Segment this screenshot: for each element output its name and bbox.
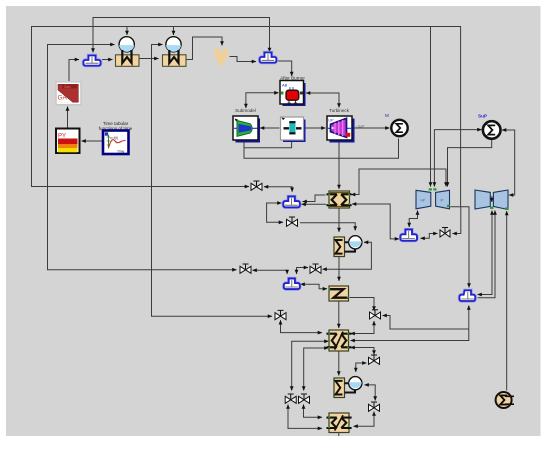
GA gain block xyxy=(56,82,81,105)
wire sum SuP right to ST2 xyxy=(502,130,515,195)
svg-text:Saw: Saw xyxy=(64,85,71,89)
valve6 xyxy=(240,264,251,273)
svg-text:UP: UP xyxy=(328,119,334,123)
wire valve5 to flange4 right xyxy=(421,234,438,239)
wire valve9 to bottom box left-bottom xyxy=(288,405,322,429)
evaporator2 with drum xyxy=(334,377,362,398)
svg-text:GA: GA xyxy=(58,95,68,102)
evaporator1 with drum xyxy=(334,236,362,257)
svg-text:SuP: SuP xyxy=(478,114,487,119)
svg-text:Submodel: Submodel xyxy=(235,108,256,113)
after burner block xyxy=(280,76,306,107)
wire flange5 top-right to valve7 xyxy=(297,268,309,275)
wire midbox right1 to valveA xyxy=(351,321,375,334)
wire box1 to box2 xyxy=(140,58,159,60)
gas turbine block xyxy=(327,108,365,142)
wire Z-box bottom to midbox top xyxy=(338,302,340,329)
wire flange3 left to valve2 xyxy=(267,203,283,222)
steam turbine ST2 xyxy=(475,190,508,210)
bottom box heat exchanger xyxy=(327,413,352,433)
wire compressor to PP block xyxy=(260,127,280,129)
wire midbox left2 to valve9 xyxy=(292,341,329,390)
wire flange2 to after burner top xyxy=(277,61,292,76)
wire after burner right to gas turbine top xyxy=(306,93,339,108)
wire sum SuP bottom to ST1 top right xyxy=(448,140,492,187)
wire ST1 bottom-left to flange4 top xyxy=(409,211,417,228)
wire branch into steam turbine ST1 top xyxy=(430,27,432,187)
wire time table to PY xyxy=(82,140,103,142)
wire valve10 to bottom box left-top xyxy=(304,405,323,418)
wire midbox right3 to valve12 xyxy=(351,348,375,355)
valve10 xyxy=(299,394,310,403)
steam turbine ST1 xyxy=(416,188,450,209)
wire gas turbine bottom to HX1 top xyxy=(338,142,340,190)
flange6 sink xyxy=(460,290,476,301)
svg-text:HP: HP xyxy=(421,198,425,202)
PY controller block xyxy=(56,129,80,154)
wire valve1 right to flange3 top xyxy=(264,187,292,192)
wire midbox bottom to evaporator2 top xyxy=(338,352,340,376)
wire branch into drum2 top xyxy=(173,27,175,36)
sum Mel circle xyxy=(385,113,408,136)
wire valve7 to evaporator1 drum right xyxy=(323,242,372,269)
furnace box2 xyxy=(163,50,187,66)
HX1 gas heat exchanger xyxy=(327,191,352,208)
wire flange1 to furnace box1 xyxy=(102,59,113,61)
wire valve8 to midbox left1 xyxy=(281,320,323,332)
sum SuP circle xyxy=(478,114,501,139)
wire valve12 to evaporator2 drum top xyxy=(356,363,367,372)
wire Z-box right to valveA top xyxy=(350,298,375,311)
svg-text:IP: IP xyxy=(441,198,444,202)
flame fuel source xyxy=(214,48,227,67)
wire HX1 right-bottom to flange4 left xyxy=(352,204,399,239)
Z-box superheater xyxy=(328,286,348,301)
PP pressure drop block xyxy=(281,117,306,142)
flange3 sink xyxy=(283,197,300,208)
wire flange5 top-left to valve6 xyxy=(253,270,288,274)
furnace box1 xyxy=(116,50,140,66)
wire ST2 bottom-left to flange6 right pair xyxy=(478,211,493,295)
wire midbox right2 to flange6 bottom xyxy=(351,306,469,341)
valve9 xyxy=(285,394,296,403)
wire valveA right loop to flange6 riser xyxy=(383,316,469,330)
compressor block xyxy=(233,108,260,142)
svg-text:M: M xyxy=(385,113,389,118)
wire shaft branch to PP bottom xyxy=(244,141,292,148)
drum2 ball xyxy=(166,37,181,52)
wire evaporator2 drum right to valve13 xyxy=(365,385,376,401)
wire gas turbine to sum Mel xyxy=(353,127,390,129)
svg-text:Turbineck: Turbineck xyxy=(329,108,350,113)
wire HX1 right-top to ST1 top right xyxy=(351,169,446,195)
time table block xyxy=(99,121,133,154)
wire shaft compressor to sum Mel bottom xyxy=(244,139,399,159)
valve1 xyxy=(251,181,262,190)
valveA xyxy=(370,310,381,319)
wire flange5 right to Z-box left-top xyxy=(301,284,328,289)
wire through PP block xyxy=(282,127,302,129)
wire PY to GA xyxy=(67,107,69,128)
wire valve13 to bottom box right xyxy=(354,412,375,427)
wire valve2 to evaporator1 drum top xyxy=(300,223,355,231)
drum1 ball xyxy=(119,37,134,52)
valve13 xyxy=(369,402,380,411)
wire ST1 right to valve5 xyxy=(450,207,469,288)
valve2 xyxy=(287,217,298,226)
wire HX1 left-top to flange3 right xyxy=(303,195,326,202)
wire evaporator1 box bottom to Z-box top xyxy=(338,257,340,282)
wire main bus y=26 valve1..flange6 xyxy=(32,27,461,207)
flange2 source xyxy=(260,53,277,63)
wire top bus y=17 flange1-flange2 xyxy=(93,18,270,53)
flange1 source xyxy=(83,56,100,66)
wire HX1 bottom to evaporator1 top xyxy=(338,209,340,233)
valve8 xyxy=(275,310,286,319)
valve12 xyxy=(369,355,380,364)
svg-text:AB: AB xyxy=(282,83,288,88)
heat source sum circle xyxy=(496,392,514,408)
wire branch into drum1 top xyxy=(126,27,128,36)
flange5 sink xyxy=(284,279,300,290)
svg-text:Time: Time xyxy=(117,150,125,154)
svg-text:u=f(t): u=f(t) xyxy=(110,136,118,140)
wire flame to flange2 xyxy=(230,57,257,62)
wire PP to gas turbine xyxy=(305,127,326,129)
wire HX1 left-bottom stub xyxy=(302,203,327,205)
svg-text:→SuP: →SuP xyxy=(354,125,365,129)
valve7 xyxy=(310,264,321,273)
wire heat source sum to ST2 bottom-right xyxy=(506,211,508,391)
valve5 xyxy=(440,228,450,238)
wire midbox left3 to valve10 xyxy=(304,348,329,391)
wire drum1 left feed from left loop x=47 to valve6 xyxy=(48,45,237,270)
wire box2 to flame source xyxy=(187,37,223,60)
wire ST1 top to sum SuP left xyxy=(434,130,481,187)
flange4 sink xyxy=(401,230,418,241)
wire GA to flange1 left xyxy=(69,60,79,82)
wire after burner left to compressor top xyxy=(246,93,279,108)
wire drum2 left feed from left loop x=151 to valve8 xyxy=(152,45,273,317)
midbox 3-port heat exchanger xyxy=(327,330,352,351)
wire bottom box outlet stub xyxy=(338,433,340,437)
